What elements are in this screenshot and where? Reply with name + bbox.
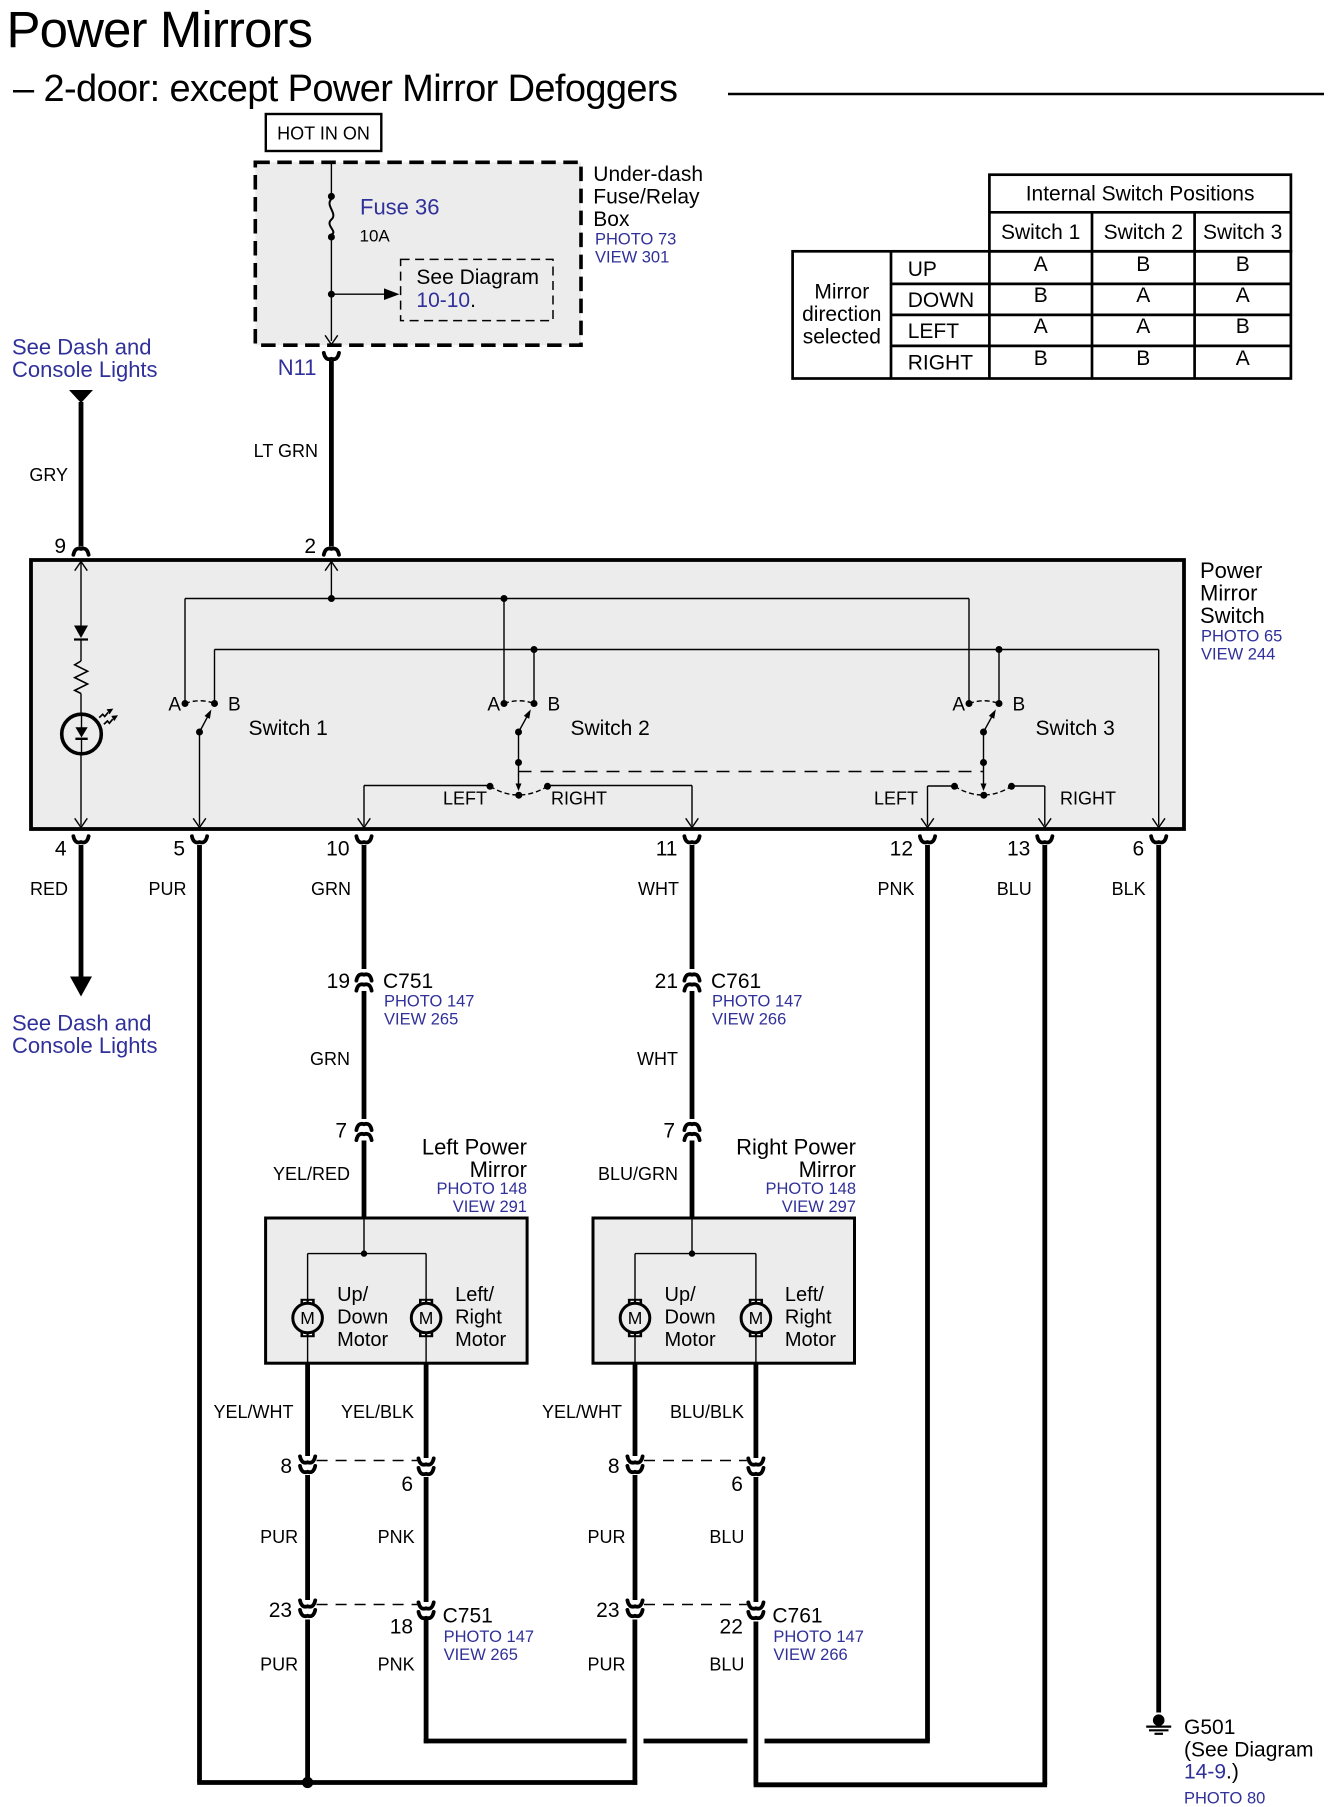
pin 4 exit arrow (75, 818, 81, 827)
svg-text:A: A (1236, 284, 1250, 307)
svg-text:VIEW 244: VIEW 244 (1201, 646, 1275, 664)
svg-text:B: B (1034, 284, 1048, 307)
svg-text:VIEW 297: VIEW 297 (782, 1198, 856, 1216)
connector pin 5 (192, 836, 207, 842)
svg-text:A: A (1236, 347, 1250, 370)
svg-text:B: B (1136, 347, 1150, 370)
svg-text:9: 9 (54, 535, 66, 558)
arrow to see-diagram box (331, 293, 384, 295)
svg-text:HOT IN ON: HOT IN ON (277, 124, 370, 144)
svg-text:10-10.: 10-10. (416, 289, 476, 312)
svg-text:PHOTO 80: PHOTO 80 (1184, 1790, 1265, 1807)
wire switch2 LEFT to pin 10 (364, 785, 490, 787)
svg-text:– 2-door: except Power Mirror: – 2-door: except Power Mirror Defoggers (13, 68, 677, 110)
connector pin 8 (300, 1456, 315, 1462)
resistor R1 (75, 661, 88, 694)
connector tie line (644, 1460, 747, 1462)
svg-text:M: M (749, 1308, 764, 1328)
connector tie line (317, 1460, 418, 1462)
connector pin 10 (356, 836, 371, 842)
LED emission arrows (99, 712, 108, 717)
connector tie line (317, 1604, 418, 1606)
svg-text:PHOTO 147: PHOTO 147 (384, 993, 474, 1011)
connector C761 pin 21 (684, 974, 699, 980)
svg-text:YEL/RED: YEL/RED (273, 1164, 350, 1184)
wire GRN pin10 to C751 (362, 845, 367, 969)
svg-text:PUR: PUR (148, 879, 186, 899)
fuse F36 element (330, 199, 334, 235)
wire resistor to LED (80, 694, 82, 714)
svg-text:6: 6 (1133, 838, 1145, 861)
svg-text:Motor: Motor (455, 1329, 506, 1351)
svg-text:Mirror: Mirror (799, 1157, 856, 1182)
HOT IN ON label box (266, 114, 382, 151)
connector pin 8 (627, 1456, 642, 1462)
svg-text:A: A (487, 695, 500, 716)
svg-text:8: 8 (608, 1455, 620, 1478)
wire RED from pin 4 (79, 845, 84, 977)
svg-text:PHOTO 147: PHOTO 147 (444, 1628, 534, 1646)
arrow exiting fuse box (325, 335, 331, 344)
node busA/switch2 (501, 595, 508, 602)
svg-text:C761: C761 (711, 970, 761, 993)
wire diode to resistor (80, 640, 82, 662)
wire LED to pin 4 (80, 754, 82, 826)
svg-text:YEL/WHT: YEL/WHT (542, 1402, 622, 1422)
svg-text:selected: selected (803, 325, 881, 348)
svg-text:Console Lights: Console Lights (12, 1033, 158, 1058)
svg-text:Switch 1: Switch 1 (1001, 221, 1080, 244)
svg-text:PHOTO 65: PHOTO 65 (1201, 628, 1282, 646)
svg-text:Fuse/Relay: Fuse/Relay (593, 185, 700, 208)
svg-text:LT GRN: LT GRN (254, 441, 318, 461)
svg-text:See Dash and: See Dash and (12, 1011, 151, 1036)
svg-text:B: B (228, 695, 241, 716)
svg-text:14-9.): 14-9.) (1184, 1761, 1239, 1784)
svg-text:Switch 2: Switch 2 (1104, 221, 1183, 244)
svg-text:M: M (300, 1308, 315, 1328)
svg-text:direction: direction (802, 303, 881, 326)
svg-text:Mirror: Mirror (470, 1157, 527, 1182)
svg-text:LEFT: LEFT (908, 320, 960, 343)
wire WHT pin11 to C761 (690, 845, 695, 969)
motor right left/right (741, 1299, 771, 1337)
svg-text:6: 6 (401, 1473, 413, 1496)
wire switch3 RIGHT to pin 13 (1012, 785, 1045, 787)
svg-text:18: 18 (390, 1616, 413, 1639)
svg-text:8: 8 (280, 1455, 292, 1478)
svg-text:UP: UP (908, 258, 937, 281)
connector C761 pin 22 (748, 1602, 763, 1608)
connector right mirror pin 7 (684, 1124, 699, 1130)
bus wire B (to switch B terminals and pin 6) (215, 649, 1159, 651)
svg-text:RIGHT: RIGHT (551, 789, 607, 809)
svg-text:GRN: GRN (311, 879, 351, 899)
svg-text:See Dash and: See Dash and (12, 335, 151, 360)
svg-text:Mirror: Mirror (814, 281, 869, 304)
wire PUR mid (305, 1475, 310, 1600)
svg-text:12: 12 (890, 838, 913, 861)
svg-text:PNK: PNK (378, 1655, 415, 1675)
wire busA to switch2 A (503, 599, 505, 702)
svg-text:PNK: PNK (378, 1527, 415, 1547)
fuse node bottom (328, 234, 335, 241)
wire WHT C761 to pin 7 (690, 991, 695, 1119)
connector pin 11 (684, 836, 699, 842)
connector pin 12 (920, 836, 935, 842)
motor left up/down (293, 1299, 323, 1337)
motor right up/down (620, 1299, 650, 1337)
svg-text:10A: 10A (360, 227, 391, 246)
arrow to dash/console lights (70, 977, 92, 997)
svg-text:B: B (1236, 315, 1250, 338)
svg-text:Internal Switch Positions: Internal Switch Positions (1026, 183, 1255, 206)
svg-text:C761: C761 (772, 1605, 822, 1628)
svg-text:YEL/WHT: YEL/WHT (213, 1402, 293, 1422)
svg-text:23: 23 (269, 1599, 292, 1622)
svg-text:22: 22 (720, 1616, 743, 1639)
connector C751 pin 18 (419, 1602, 434, 1608)
svg-text:Right: Right (785, 1307, 832, 1329)
svg-text:BLK: BLK (1112, 879, 1146, 899)
svg-text:Under-dash: Under-dash (593, 163, 703, 186)
svg-text:VIEW 265: VIEW 265 (444, 1646, 518, 1664)
wire BLU/GRN pin7 to right mirror (690, 1141, 695, 1220)
svg-text:VIEW 301: VIEW 301 (595, 249, 669, 267)
svg-text:PUR: PUR (587, 1655, 625, 1675)
svg-text:(See Diagram: (See Diagram (1184, 1739, 1314, 1762)
node pin2/busA (328, 595, 335, 602)
svg-text:PHOTO 147: PHOTO 147 (773, 1628, 863, 1646)
switch S2 (487, 695, 561, 799)
svg-text:Power: Power (1200, 558, 1262, 583)
svg-text:N11: N11 (278, 355, 317, 380)
fuse 36 node top (328, 193, 335, 200)
svg-text:Up/: Up/ (337, 1284, 369, 1306)
wire junction to box bottom (330, 294, 332, 341)
svg-text:YEL/BLK: YEL/BLK (341, 1402, 414, 1422)
svg-text:Left/: Left/ (785, 1284, 824, 1306)
junction node to see-diagram arrow (328, 291, 335, 298)
svg-text:LEFT: LEFT (874, 789, 918, 809)
svg-text:GRY: GRY (29, 465, 68, 485)
wire PUR net: pin5 / left23 / right23 (197, 845, 202, 1783)
title rule line (728, 93, 1324, 96)
svg-text:10: 10 (326, 838, 349, 861)
ground G501 (1146, 1714, 1171, 1733)
wire busB to switch3 B (998, 650, 1000, 702)
svg-text:VIEW 266: VIEW 266 (712, 1011, 786, 1029)
connector pin 13 (1037, 836, 1052, 842)
connector C761 pin 23 (627, 1600, 642, 1606)
svg-text:Mirror: Mirror (1200, 580, 1257, 605)
svg-text:B: B (548, 695, 561, 716)
svg-text:Fuse 36: Fuse 36 (360, 195, 440, 220)
svg-text:Down: Down (337, 1307, 388, 1329)
svg-text:B: B (1034, 347, 1048, 370)
wire GRY to pin 9 (79, 402, 84, 547)
pin 2 entry arrow (325, 562, 331, 571)
svg-text:Switch 2: Switch 2 (571, 717, 650, 740)
svg-text:Switch 3: Switch 3 (1036, 717, 1115, 740)
svg-text:B: B (1013, 695, 1026, 716)
mechanical link switch2-switch3 (519, 771, 984, 773)
svg-text:A: A (1034, 253, 1048, 276)
svg-text:Switch 3: Switch 3 (1203, 221, 1282, 244)
wire BLU below mirror (754, 1363, 759, 1458)
svg-text:A: A (168, 695, 181, 716)
svg-text:Motor: Motor (665, 1329, 716, 1351)
svg-text:21: 21 (655, 970, 678, 993)
svg-text:WHT: WHT (638, 879, 679, 899)
svg-text:LEFT: LEFT (443, 789, 487, 809)
wire YEL/RED pin7 to left mirror (362, 1141, 367, 1220)
connector pin 6 (419, 1458, 434, 1464)
node PUR junction (302, 1777, 313, 1788)
svg-text:RIGHT: RIGHT (1060, 789, 1116, 809)
internal switch positions table (793, 175, 1291, 379)
svg-text:A: A (952, 695, 965, 716)
svg-text:5: 5 (173, 838, 185, 861)
svg-text:WHT: WHT (637, 1049, 678, 1069)
wire GRN C751 to pin 7 (362, 991, 367, 1119)
svg-text:2: 2 (304, 535, 316, 558)
wire switch2 RIGHT to pin 11 (548, 785, 693, 787)
connector tie line (644, 1604, 747, 1606)
wire PUR below mirror (305, 1363, 310, 1456)
svg-text:7: 7 (335, 1120, 347, 1143)
node busB/switch3 (996, 646, 1003, 653)
svg-text:B: B (1236, 253, 1250, 276)
wire PNK below mirror (424, 1363, 429, 1458)
svg-text:Switch: Switch (1200, 603, 1265, 628)
svg-text:A: A (1034, 315, 1048, 338)
svg-text:Right: Right (455, 1307, 502, 1329)
svg-text:BLU/GRN: BLU/GRN (598, 1164, 678, 1184)
wire fuse to junction (330, 237, 332, 294)
wire inside left mirror (363, 1218, 365, 1254)
wire LT GRN (N11 to pin 2) (329, 361, 334, 547)
wire BLK pin6 to ground (1156, 845, 1161, 1713)
svg-text:Box: Box (593, 208, 630, 231)
svg-text:BLU: BLU (709, 1527, 744, 1547)
svg-text:PHOTO 148: PHOTO 148 (766, 1180, 856, 1198)
svg-text:PHOTO 73: PHOTO 73 (595, 231, 676, 249)
svg-text:13: 13 (1007, 838, 1030, 861)
under-dash fuse/relay box (255, 162, 581, 345)
LED indicator lamp (62, 714, 102, 754)
svg-text:7: 7 (663, 1120, 675, 1143)
switch S3 (951, 695, 1025, 799)
connector pin 2 (324, 548, 339, 554)
arrow from dash/console lights (69, 390, 93, 403)
connector left mirror pin 7 (356, 1124, 371, 1130)
wire PNK net: left18 to pin12 (424, 1620, 429, 1744)
svg-text:Left/: Left/ (455, 1284, 494, 1306)
svg-text:VIEW 291: VIEW 291 (453, 1198, 527, 1216)
svg-text:Console Lights: Console Lights (12, 357, 158, 382)
svg-text:Right Power: Right Power (736, 1135, 856, 1160)
wire PUR below mirror (633, 1363, 638, 1456)
svg-text:23: 23 (596, 1599, 619, 1622)
connector C751 pin 19 (356, 974, 371, 980)
svg-text:PUR: PUR (260, 1655, 298, 1675)
power mirror switch box (31, 560, 1184, 829)
svg-text:6: 6 (731, 1473, 743, 1496)
left mirror box (266, 1218, 527, 1363)
wire pin9 to diode (80, 562, 82, 626)
wire pin2 down to bus A (330, 562, 332, 599)
connector N11 (324, 353, 339, 359)
svg-text:RIGHT: RIGHT (908, 352, 974, 375)
svg-text:PUR: PUR (260, 1527, 298, 1547)
svg-text:Motor: Motor (337, 1329, 388, 1351)
svg-text:C751: C751 (383, 970, 433, 993)
wire inside right mirror (691, 1218, 693, 1254)
node busB/switch2 (531, 646, 538, 653)
svg-text:Down: Down (665, 1307, 716, 1329)
wire switch3 LEFT to pin 12 (928, 785, 955, 787)
svg-text:A: A (1136, 284, 1150, 307)
wire BLU net: right22 to pin13 (754, 1622, 759, 1785)
pin 6 exit arrow (1152, 818, 1158, 827)
svg-text:B: B (1136, 253, 1150, 276)
svg-text:VIEW 266: VIEW 266 (773, 1646, 847, 1664)
svg-text:RED: RED (30, 879, 68, 899)
svg-text:Motor: Motor (785, 1329, 836, 1351)
svg-text:PUR: PUR (587, 1527, 625, 1547)
wire from box top to fuse (330, 162, 332, 196)
svg-text:VIEW 265: VIEW 265 (384, 1011, 458, 1029)
motor left left/right (411, 1299, 441, 1337)
pin 9 entry arrow (75, 562, 81, 571)
connector pin 9 (73, 548, 88, 554)
svg-text:See Diagram: See Diagram (416, 266, 539, 289)
see diagram 10-10 box (401, 259, 553, 320)
svg-text:DOWN: DOWN (908, 289, 975, 312)
svg-text:Switch 1: Switch 1 (249, 717, 328, 740)
svg-text:PHOTO 147: PHOTO 147 (712, 993, 802, 1011)
svg-text:A: A (1136, 315, 1150, 338)
connector pin 4 (73, 836, 88, 842)
wire PUR mid (633, 1475, 638, 1600)
svg-text:GRN: GRN (310, 1049, 350, 1069)
svg-text:BLU: BLU (997, 879, 1032, 899)
switch S1 (168, 695, 240, 828)
svg-text:BLU: BLU (709, 1655, 744, 1675)
connector C751 pin 23 (300, 1600, 315, 1606)
svg-text:Power Mirrors: Power Mirrors (7, 1, 313, 58)
svg-text:BLU/BLK: BLU/BLK (670, 1402, 744, 1422)
bus wire A (to switch A terminals) (185, 598, 969, 600)
svg-text:M: M (628, 1308, 643, 1328)
svg-text:PNK: PNK (877, 879, 914, 899)
wire busB to pin 6 (1158, 650, 1160, 826)
right mirror box (593, 1218, 855, 1363)
svg-text:C751: C751 (443, 1605, 493, 1628)
diode D1 (74, 626, 88, 639)
svg-text:Left Power: Left Power (422, 1135, 527, 1160)
svg-text:Up/: Up/ (665, 1284, 697, 1306)
connector pin 6 (1151, 836, 1166, 842)
svg-text:19: 19 (327, 970, 350, 993)
svg-text:PHOTO 148: PHOTO 148 (437, 1180, 527, 1198)
wire BLU mid (754, 1477, 759, 1602)
connector pin 6 (748, 1458, 763, 1464)
svg-text:G501: G501 (1184, 1716, 1235, 1739)
svg-text:M: M (419, 1308, 434, 1328)
svg-text:4: 4 (55, 838, 67, 861)
svg-text:11: 11 (656, 838, 678, 861)
wire PNK mid (424, 1477, 429, 1602)
wire busB to switch2 B (533, 650, 535, 702)
